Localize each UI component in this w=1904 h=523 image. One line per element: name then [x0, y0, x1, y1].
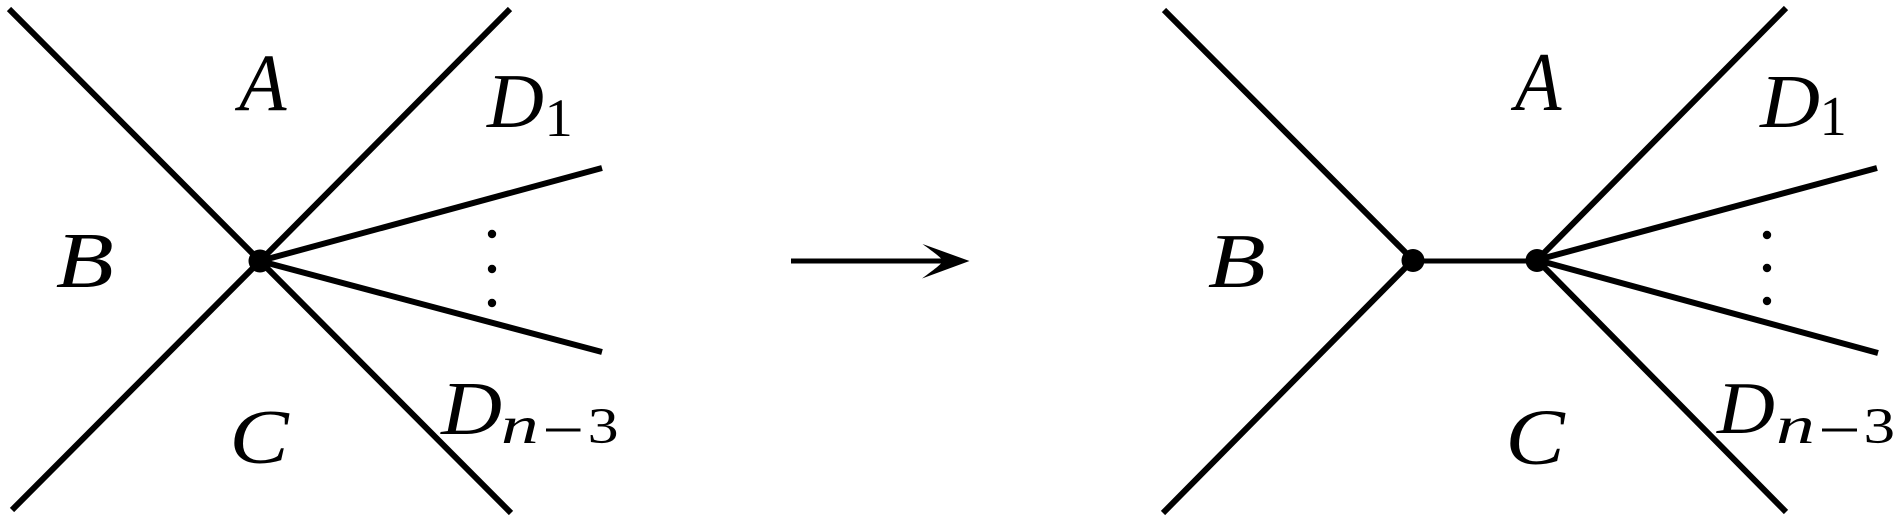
label C (left diagram)	[229, 395, 290, 480]
wire: right diagram ray D_1	[1537, 168, 1877, 260]
svg-text:D: D	[1759, 60, 1820, 144]
label D_1 (left diagram)	[486, 58, 573, 148]
ellipsis dots between left D_1 and D_n-3 rays	[488, 230, 496, 307]
svg-text:3: 3	[588, 398, 619, 455]
wire: left diagram ray D_1	[260, 168, 602, 261]
svg-text:B: B	[56, 216, 114, 304]
svg-text:A: A	[234, 38, 287, 128]
svg-text:1: 1	[545, 88, 573, 148]
arrow from left diagram to right diagram	[791, 244, 970, 279]
label D_n-3 (left diagram)	[440, 367, 618, 455]
svg-text:1: 1	[1820, 85, 1847, 147]
node: left diagram central vertex	[249, 250, 272, 273]
wire: centre edge joining the two vertices	[1413, 259, 1537, 264]
ellipsis dots between right D_1 and D_n-3 rays	[1763, 231, 1771, 305]
svg-text:B: B	[1208, 218, 1266, 304]
wire: right diagram leg to upper-left (between A and B)	[1164, 10, 1413, 260]
svg-text:C: C	[229, 395, 290, 480]
svg-text:C: C	[1505, 394, 1565, 481]
wire: right diagram leg to upper-right (between A and D_1)	[1537, 8, 1786, 260]
label B (right diagram)	[1208, 218, 1266, 304]
svg-text:A: A	[1510, 37, 1562, 129]
wire: left diagram ray D_n-3	[260, 261, 602, 352]
wire: right diagram leg to lower-right (between C and D_n-3)	[1537, 260, 1786, 512]
node: right diagram left vertex	[1402, 249, 1425, 272]
label B (left diagram)	[56, 216, 114, 304]
label D_1 (right diagram)	[1759, 60, 1847, 147]
wire: left diagram leg to upper-left (between A and B)	[9, 9, 260, 261]
label C (right diagram)	[1505, 394, 1565, 481]
svg-text:3: 3	[1864, 399, 1896, 455]
label A (left diagram)	[234, 38, 287, 128]
wire: right diagram ray D_n-3	[1537, 260, 1878, 353]
label A (right diagram)	[1510, 37, 1562, 129]
wire: left diagram leg to lower-left (between B and C)	[12, 261, 260, 510]
node: right diagram right vertex	[1526, 249, 1549, 272]
wire: right diagram leg to lower-left (between B and C)	[1163, 260, 1413, 513]
label D_n-3 (right diagram)	[1716, 367, 1895, 455]
svg-text:D: D	[440, 367, 502, 451]
wire: left diagram leg to lower-right (between C and D_n-3)	[260, 261, 511, 513]
svg-text:n: n	[1776, 397, 1815, 455]
svg-text:D: D	[1716, 367, 1775, 450]
wire: left diagram leg to upper-right (between A and D_1)	[260, 9, 510, 261]
svg-text:D: D	[486, 58, 544, 144]
svg-text:n: n	[501, 396, 539, 455]
